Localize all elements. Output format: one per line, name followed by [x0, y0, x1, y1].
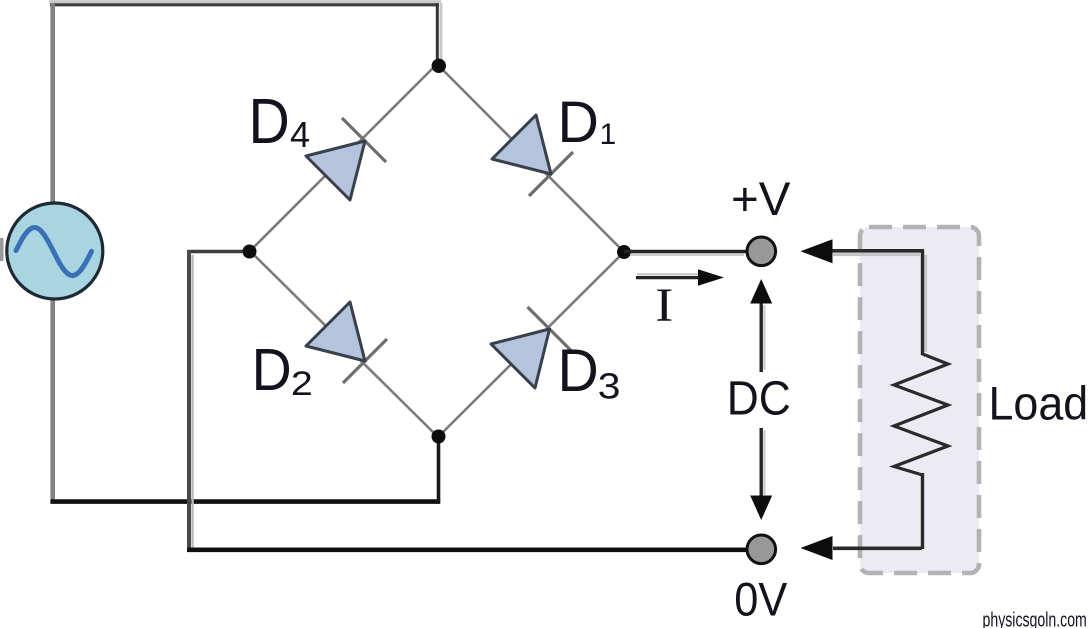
svg-text:2: 2: [291, 365, 313, 403]
svg-text:D: D: [558, 337, 599, 404]
svg-text:D: D: [252, 337, 292, 403]
svg-text:1: 1: [600, 118, 617, 151]
svg-text:Load: Load: [989, 377, 1088, 430]
svg-text:+V: +V: [731, 173, 791, 226]
svg-text:physicsgoln.com: physicsgoln.com: [983, 610, 1087, 628]
svg-text:4: 4: [290, 114, 310, 155]
svg-text:3: 3: [598, 366, 621, 407]
svg-text:D: D: [249, 85, 290, 157]
svg-text:0V: 0V: [734, 574, 787, 627]
svg-text:I: I: [655, 280, 673, 332]
svg-text:DC: DC: [727, 373, 791, 426]
svg-text:D: D: [558, 90, 599, 155]
